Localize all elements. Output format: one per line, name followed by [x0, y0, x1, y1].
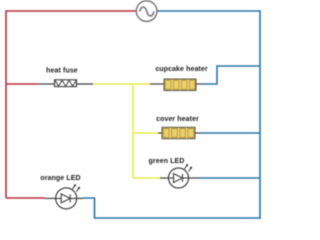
cover heater element: [162, 127, 195, 138]
wire: red left vertical: [5, 10, 7, 198]
svg-text:green LED: green LED: [149, 158, 185, 165]
cupcake heater lead right: [196, 83, 203, 85]
cover heater lead right: [195, 132, 201, 134]
orange LED lead right: [77, 197, 83, 199]
cupcake heater lead left: [150, 83, 164, 85]
wire: blue right vertical: [259, 10, 261, 219]
wire: red branch to orange LED: [6, 197, 45, 199]
cover heater lead left: [158, 132, 162, 134]
wire: blue from green LED to right vertical: [199, 177, 260, 179]
heat fuse lead left: [39, 83, 55, 85]
wire: yellow middle vertical bus: [132, 84, 134, 178]
svg-text:heat fuse: heat fuse: [46, 68, 78, 75]
heat fuse lead right: [77, 83, 94, 85]
wire: blue from cover heater to right vertical: [201, 132, 260, 134]
wire: red top horizontal from AC source to left edge: [6, 10, 136, 12]
wire: blue from orange LED down and along bottom: [83, 198, 261, 218]
AC source: [136, 1, 157, 22]
wire: blue from cupcake heater up and right: [203, 66, 260, 84]
wire: yellow from heat fuse to cupcake heater: [93, 83, 150, 85]
wire: yellow branch to green LED: [133, 177, 160, 179]
cupcake heater element: [164, 79, 196, 91]
svg-text:orange LED: orange LED: [40, 175, 80, 182]
orange LED D2: [56, 185, 80, 209]
heat fuse F1: [55, 80, 77, 87]
wire: blue top horizontal from AC source to right edge: [157, 10, 260, 12]
green LED D1: [169, 165, 192, 189]
svg-text:cover heater: cover heater: [156, 116, 199, 123]
green LED lead left: [160, 177, 169, 179]
green LED lead right: [189, 177, 200, 179]
orange LED lead left: [45, 197, 56, 199]
wire: yellow branch to cover heater: [133, 132, 158, 134]
svg-text:cupcake heater: cupcake heater: [155, 66, 208, 73]
wire: red branch to heat fuse: [6, 83, 39, 85]
